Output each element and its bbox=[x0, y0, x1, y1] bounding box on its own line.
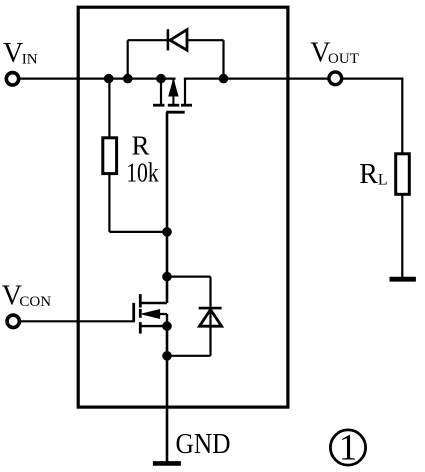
junction dot rail at diode left bbox=[123, 74, 132, 83]
diode D2 cathode bar bbox=[199, 307, 222, 310]
ground bar symbol bbox=[153, 461, 181, 466]
wire diode D2 bottom horizontal bbox=[167, 355, 211, 357]
wire diode D2 top horizontal bbox=[167, 276, 211, 278]
wire gate node down to diode tap bbox=[166, 232, 169, 277]
junction dot rail at diode right bbox=[219, 74, 228, 83]
wire resistor R bottom bbox=[108, 174, 110, 232]
junction dot at NMOS source bbox=[163, 322, 172, 331]
junction dot at NMOS drain tap bbox=[163, 272, 172, 281]
wire ground lead down bbox=[166, 356, 169, 462]
junction dot rail at resistor branch bbox=[104, 74, 113, 83]
svg-text:VOUT: VOUT bbox=[310, 38, 359, 69]
NMOS Q2 drain stub bbox=[140, 302, 167, 304]
wire diode D1 top right horizontal bbox=[187, 39, 224, 41]
wire diode D1 right vertical bbox=[222, 40, 224, 78]
junction dot at diode bottom tap bbox=[163, 352, 172, 361]
output terminal circle VOUT bbox=[329, 72, 342, 85]
resistor RL body bbox=[396, 154, 410, 195]
diode D1 triangle bbox=[170, 30, 187, 51]
NMOS Q2 source stub bbox=[140, 325, 167, 327]
NMOS Q2 channel bar middle bbox=[139, 309, 142, 318]
junction dot rail at PMOS drain bbox=[157, 74, 166, 83]
wire from VOUT terminal to RL corner bbox=[343, 77, 404, 79]
wire VCON to NMOS gate bbox=[20, 320, 135, 322]
wire diode D2 right vertical upper bbox=[209, 277, 211, 356]
svg-text:R: R bbox=[132, 131, 150, 161]
NMOS Q2 channel bar bottom bbox=[139, 322, 142, 334]
wire RL vertical lower bbox=[401, 194, 403, 277]
wire main rail from VIN terminal to PMOS body arrow bbox=[13, 77, 176, 79]
NMOS Q2 body wire down to source bbox=[166, 314, 168, 326]
svg-text:10k: 10k bbox=[126, 157, 159, 187]
svg-text:VIN: VIN bbox=[3, 38, 38, 69]
wire diode D1 top left horizontal bbox=[128, 39, 168, 41]
diode D1 cathode bar bbox=[167, 29, 170, 50]
resistor R body bbox=[103, 138, 117, 174]
svg-text:1: 1 bbox=[339, 428, 358, 469]
wire PMOS gate lead down bbox=[166, 112, 169, 232]
NMOS Q2 body arrow shaft bbox=[150, 313, 167, 315]
wire diode D1 left vertical bbox=[127, 40, 129, 78]
svg-text:GND: GND bbox=[176, 429, 231, 460]
wire resistor R to gate node bbox=[109, 231, 167, 233]
PMOS Q1 body arrow shaft bbox=[172, 79, 174, 106]
figure number circle bbox=[330, 430, 365, 465]
PMOS Q1 right contact bar bbox=[181, 104, 192, 107]
PMOS Q1 left stub bbox=[160, 79, 162, 106]
ground bar under RL bbox=[390, 277, 416, 282]
IC boundary box bbox=[78, 7, 288, 407]
PMOS Q1 right stub bbox=[184, 78, 186, 106]
NMOS Q2 channel bar top bbox=[139, 294, 142, 307]
wire down to NMOS drain stub bbox=[166, 277, 169, 303]
wire NMOS source down to diode bottom tap bbox=[166, 326, 169, 356]
svg-text:RL: RL bbox=[359, 159, 387, 190]
PMOS Q1 gate bar bbox=[166, 111, 185, 114]
svg-text:VCON: VCON bbox=[2, 280, 52, 311]
junction dot gate node at resistor bbox=[163, 228, 172, 237]
NMOS Q2 body arrowhead bbox=[142, 310, 160, 319]
NMOS Q2 gate bar bbox=[132, 303, 135, 321]
PMOS Q1 body arrowhead bbox=[169, 80, 178, 97]
control terminal circle VCON bbox=[7, 315, 19, 327]
wire resistor R top bbox=[108, 79, 110, 139]
wire main rail from PMOS right stub to VOUT terminal bbox=[184, 77, 329, 79]
wire RL vertical upper bbox=[401, 78, 403, 156]
PMOS Q1 middle contact bar bbox=[168, 104, 179, 107]
input terminal circle VIN bbox=[6, 73, 18, 85]
diode D2 triangle bbox=[199, 310, 221, 327]
PMOS Q1 left contact bar bbox=[153, 104, 164, 107]
